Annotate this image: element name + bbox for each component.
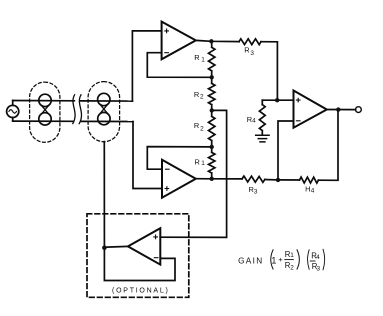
svg-text:3: 3: [250, 50, 254, 57]
svg-text:+: +: [278, 255, 283, 264]
svg-text:R: R: [195, 157, 200, 166]
op-amp A3: [294, 91, 327, 128]
twisted pair 1 upper loop: [39, 94, 51, 106]
svg-text:4: 4: [252, 118, 256, 125]
wire A3 plus input: [262, 99, 293, 101]
shield 2 (dashed stadium): [88, 82, 120, 142]
wire junction to R4 feedback: [278, 179, 300, 181]
wire bottom dropper to op-amp A2: [133, 122, 162, 189]
twisted pair 1 crossover: [41, 105, 48, 114]
signal source V1: [7, 105, 19, 117]
svg-text:1: 1: [201, 160, 205, 167]
svg-text:H: H: [305, 184, 310, 193]
A1 minus sign: [165, 52, 169, 54]
svg-text:R: R: [244, 46, 249, 55]
guard buffer A4: [128, 228, 160, 264]
wire A4 feedback: [104, 248, 175, 281]
svg-text:GAIN: GAIN: [238, 257, 263, 266]
op-amp A1: [162, 22, 196, 60]
A1 plus sign: [165, 29, 169, 33]
svg-text:4: 4: [316, 254, 320, 261]
junction guard tap node: [210, 108, 214, 112]
svg-text:(OPTIONAL): (OPTIONAL): [112, 287, 170, 294]
wire A1 feedback: [147, 53, 211, 78]
svg-text:R: R: [194, 53, 199, 62]
fraction bar 1: [284, 259, 294, 261]
resistor R2 (lower): [209, 110, 215, 146]
shield 1 (dashed stadium): [30, 82, 60, 142]
svg-text:R: R: [194, 90, 199, 99]
resistor R2 (upper): [209, 77, 215, 110]
svg-text:3: 3: [254, 188, 258, 195]
wire A4 output: [104, 245, 128, 248]
junction R2/R1 lower node: [210, 145, 214, 149]
A3 minus sign: [296, 120, 300, 122]
junction A3 output node: [336, 107, 340, 111]
resistor R1 (lower): [209, 147, 215, 179]
resistor R3 (bottom): [242, 176, 265, 182]
wire top conductor left segment: [13, 100, 75, 102]
output terminal: [356, 107, 362, 113]
wire top conductor right segment: [81, 100, 133, 102]
resistor R3 (top): [239, 39, 261, 45]
op-amp A2: [162, 160, 196, 198]
A2 minus sign: [166, 168, 170, 170]
cable break marks: [73, 95, 75, 124]
junction A4 output node: [102, 245, 107, 250]
svg-text:R: R: [194, 121, 199, 130]
paren open 1: [271, 249, 274, 269]
wire shield to guard buffer: [103, 142, 105, 248]
A3 plus sign: [296, 98, 300, 102]
wire source bottom stub: [12, 118, 14, 122]
svg-text:1: 1: [201, 56, 205, 63]
twisted pair 2 crossover: [100, 105, 107, 114]
svg-text:3: 3: [317, 266, 321, 273]
wire bottom conductor right segment: [81, 120, 133, 122]
svg-text:2: 2: [290, 265, 294, 272]
junction A3 plus node: [275, 98, 279, 102]
junction R1/R2 upper node: [210, 75, 214, 79]
A4 minus sign: [154, 257, 158, 259]
wire guard tap: [160, 110, 226, 237]
optional enclosure (dashed box): [87, 214, 189, 297]
wire A2 feedback: [147, 147, 211, 170]
twisted pair 1 lower loop: [39, 113, 51, 125]
sine symbol inside source: [9, 110, 17, 114]
junction A2 output node: [210, 177, 214, 181]
resistor H4 (feedback): [300, 177, 319, 183]
wire A3 minus input: [278, 121, 294, 180]
svg-text:2: 2: [200, 93, 204, 100]
wire R3 bottom to junction: [265, 179, 278, 181]
wire top riser to op-amp A1: [132, 31, 161, 101]
resistor R1 (top): [209, 41, 215, 77]
twisted pair 2 lower loop: [98, 112, 110, 124]
wire source top stub: [12, 101, 14, 106]
gain formula: [238, 250, 320, 273]
svg-text:2: 2: [200, 126, 204, 133]
wire A3 output: [327, 109, 356, 111]
ground: [256, 135, 269, 142]
wire A1 output: [196, 40, 239, 41]
wire A2 output: [196, 178, 242, 180]
twisted pair 2 upper loop: [98, 93, 110, 105]
svg-text:1: 1: [271, 255, 276, 265]
paren close 1: [297, 249, 300, 269]
paren open 2: [308, 249, 310, 269]
svg-text:1: 1: [290, 252, 294, 259]
junction feedback node: [276, 178, 280, 182]
A4 plus sign: [154, 235, 158, 239]
wire H4 to output: [318, 110, 338, 181]
paren close 2: [323, 249, 325, 270]
svg-text:4: 4: [311, 188, 315, 195]
A2 plus sign: [165, 187, 169, 191]
fraction bar 2: [310, 260, 316, 262]
junction A1 output node: [209, 39, 213, 43]
resistor R4: [259, 100, 265, 135]
wire R3 top to A3 plus: [261, 42, 277, 100]
wire bottom conductor left segment: [13, 120, 73, 122]
